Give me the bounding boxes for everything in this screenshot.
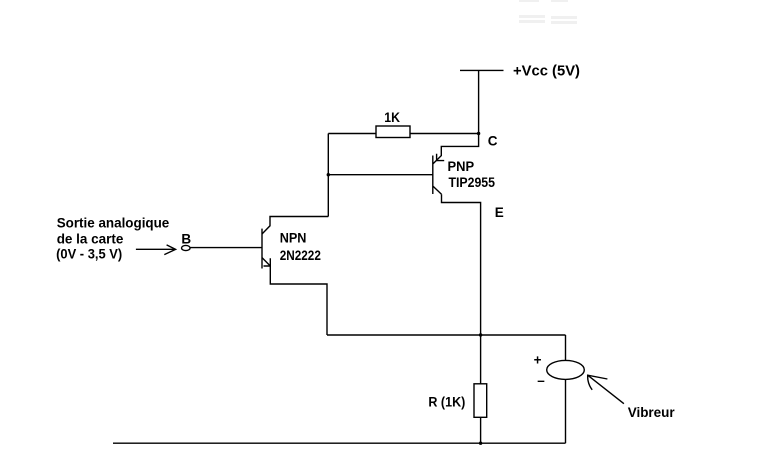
wire 1K left [328, 133, 376, 135]
wire buzzer top [565, 335, 567, 361]
svg-text:NPN: NPN [280, 230, 307, 245]
svg-text:(0V - 3,5 V): (0V - 3,5 V) [56, 247, 122, 262]
node B circle [182, 245, 191, 250]
resistor R2 body [474, 384, 487, 418]
svg-text:–: – [537, 373, 545, 388]
svg-text:+: + [534, 352, 542, 367]
buzzer Vibreur body [547, 360, 585, 379]
svg-text:2N2222: 2N2222 [280, 248, 321, 263]
power rail +Vcc bar [460, 69, 504, 71]
wire 1K right [410, 133, 479, 135]
transistor Q2 PNP emitter diagonal [433, 186, 442, 194]
svg-text:Sortie analogique: Sortie analogique [57, 216, 170, 231]
svg-text:de la carte: de la carte [57, 232, 124, 247]
wire Vcc vertical [478, 70, 480, 133]
wire R2 bottom [480, 417, 482, 443]
junction dot bottom [479, 442, 482, 445]
transistor Q1 NPN emitter diagonal [262, 258, 270, 266]
svg-text:PNP: PNP [448, 159, 475, 174]
faint watermark text remnants top [519, 0, 577, 24]
wire base of Q1 [190, 247, 262, 249]
input arrow head [164, 245, 175, 255]
svg-text:1K: 1K [384, 110, 400, 125]
svg-text:C: C [488, 133, 498, 148]
wire bottom rail [113, 442, 566, 444]
resistor R1 1K body [376, 126, 410, 138]
svg-text:+Vcc (5V): +Vcc (5V) [513, 62, 580, 79]
wire R2 top [480, 335, 482, 384]
wire emitter of Q2 [442, 194, 481, 335]
svg-text:Vibreur: Vibreur [628, 405, 676, 420]
svg-text:B: B [181, 231, 191, 246]
wire mid horizontal [327, 334, 566, 336]
svg-text:E: E [495, 205, 504, 220]
junction node C dot [477, 132, 480, 135]
junction dot mid [479, 333, 482, 336]
transistor Q2 PNP arrow [437, 154, 445, 161]
wire collector of Q1 [262, 217, 328, 235]
transistor Q1 NPN emitter arrow [264, 258, 271, 266]
pointer arrow to buzzer shaft [588, 375, 624, 404]
input arrow shaft [136, 248, 175, 250]
svg-text:R (1K): R (1K) [428, 395, 465, 410]
junction dot base network [327, 173, 330, 176]
transistor Q2 PNP base bar [432, 156, 434, 195]
wire emitter of Q1 [270, 266, 327, 335]
wire collector of Q2 [433, 134, 479, 165]
wire base of Q2 [328, 174, 433, 176]
transistor Q1 NPN base bar [261, 229, 263, 269]
wire buzzer bottom [565, 379, 567, 443]
wire left vertical [327, 134, 329, 217]
pointer arrow head [588, 375, 608, 390]
svg-text:TIP2955: TIP2955 [449, 175, 496, 190]
